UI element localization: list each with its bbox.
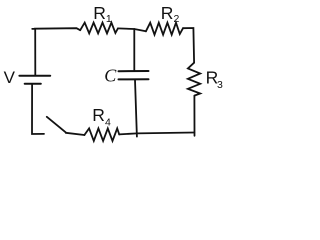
svg-text:R1: R1 <box>93 3 112 25</box>
svg-text:R2: R2 <box>161 3 180 25</box>
wire: battery negative terminal down to bottom-left corner, stub to switch contact <box>32 85 44 134</box>
wire: capacitor lower stem <box>135 80 137 137</box>
wire: capacitor upper stem to node on top wire <box>133 29 135 71</box>
capacitor C (two plates) <box>119 71 149 79</box>
wire: battery positive terminal up to top-left corner, right to R1 <box>32 28 80 75</box>
wire: R3 down past bottom-right corner <box>193 96 195 136</box>
switch S (open blade) <box>47 117 66 133</box>
wire: R1 to node to R2 <box>118 28 146 31</box>
battery V (two plates) <box>19 76 50 84</box>
wire: switch pivot to R4 <box>66 133 85 135</box>
resistor R1 <box>80 23 118 34</box>
wire: R4 to capacitor junction to bottom-right corner <box>119 133 194 135</box>
wire: R2 to top-right corner down to R3 <box>183 28 194 63</box>
resistor R3 <box>188 63 200 96</box>
svg-text:R4: R4 <box>92 105 111 129</box>
svg-text:V: V <box>4 68 16 87</box>
resistor R2 <box>146 23 183 35</box>
resistor R4 <box>84 128 119 141</box>
svg-text:C: C <box>104 65 117 85</box>
svg-text:R3: R3 <box>206 67 223 91</box>
